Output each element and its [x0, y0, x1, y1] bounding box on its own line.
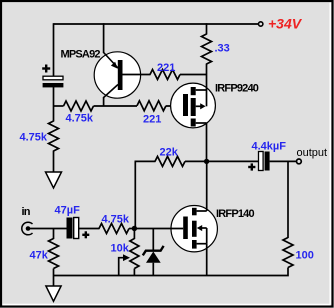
wire output row left: corner to 22k [135, 160, 156, 162]
svg-text:100: 100 [296, 249, 314, 261]
wire U2 drain up to output node [206, 161, 208, 211]
capacitor C3 plus sign [248, 163, 255, 170]
frame inner white right edge [329, 3, 331, 305]
svg-text:+34V: +34V [268, 16, 303, 32]
zener diode top lead [152, 229, 154, 251]
pot wiper arrowhead [123, 254, 130, 261]
U2 channel bottom segment [192, 240, 197, 249]
ground symbol left-mid [46, 172, 62, 188]
U2 channel mid segment [192, 221, 197, 237]
capacitor C1 top plate (hollow) [43, 76, 63, 80]
resistor 47k (vertical) [49, 239, 59, 269]
transistor Q1 base bar [118, 60, 123, 90]
wire y=106 row: 221 to IRFP9240 gate [166, 105, 184, 107]
capacitor C2 right plate (hollow) [74, 218, 79, 239]
wire .33 top lead [206, 23, 208, 34]
wire y=106 row: node to R 4.75k [54, 105, 64, 107]
U1 channel bottom segment [191, 119, 196, 127]
wire 47k hang from input wire [53, 229, 55, 240]
transistor Q1 emitter diagonal [104, 53, 118, 69]
zener anode triangle (points up) [146, 252, 161, 263]
transistor Q1 base lead [123, 74, 151, 76]
resistor 221 lower (horizontal) [137, 101, 166, 111]
U2 gate bar [183, 217, 188, 240]
svg-text:4.4kµF: 4.4kµF [252, 140, 287, 152]
wire 10k top from gate node [133, 229, 135, 240]
wire MPSA92 collector lead [103, 97, 105, 107]
transistor U1 IRFP9240 circle [171, 83, 216, 128]
svg-text:221: 221 [157, 62, 175, 74]
U2 body lead mid [202, 227, 207, 229]
wire 22k to output node dot [185, 160, 207, 162]
svg-text:in: in [22, 206, 31, 218]
pot wiper wire [119, 258, 124, 276]
capacitor C2 plus sign [82, 231, 89, 238]
terminal input center dot [26, 226, 31, 231]
wire y=106 row: R 4.75k to 221 [94, 105, 138, 107]
U2 drain lead top [197, 210, 207, 212]
transistor Q1 emitter arrowhead [111, 62, 118, 69]
wire 221 upper to source node [180, 74, 207, 76]
wire gate node to IRFP140 gate [134, 228, 183, 230]
wire MPSA92 emitter lead [103, 23, 105, 53]
U1 source lead top [196, 89, 207, 91]
wire 100 bottom to ground bus [54, 268, 289, 276]
U1 body arrowhead (points right) [200, 103, 205, 109]
U1 drain lead bottom [196, 122, 207, 124]
terminal input [22, 222, 33, 235]
wire top rail y=24 [54, 23, 259, 25]
resistor 22k (horizontal) [155, 156, 185, 166]
wire C1 bottom to node row y=106 [53, 87, 55, 122]
svg-text:4.75k: 4.75k [102, 213, 130, 225]
transistor U2 IRFP140 circle [171, 206, 217, 252]
wire R4.75k to gate node [129, 228, 134, 230]
U1 gate bar [183, 94, 188, 116]
svg-text:.33: .33 [215, 43, 230, 55]
transistor Q1 collector diagonal [104, 85, 118, 98]
resistor 4.75k left (vertical) [49, 121, 59, 151]
svg-text:4.75k: 4.75k [20, 131, 48, 143]
U2 body arrowhead (points left) [197, 225, 202, 231]
capacitor C3 left plate (hollow) [259, 152, 264, 171]
wire down to 100 [287, 161, 289, 238]
junction dot gate node [132, 226, 137, 231]
svg-text:IRFP140: IRFP140 [216, 208, 254, 220]
resistor 100 (vertical) [283, 238, 293, 268]
resistor 4.75k top-left (horizontal) [64, 101, 94, 111]
wire U2 source down to ground bus [206, 244, 208, 276]
capacitor C3 right plate (solid) [265, 152, 270, 171]
svg-text:output: output [297, 147, 328, 159]
wire left vertical R4.75k to ground [53, 151, 55, 173]
resistor 10k pot (vertical) [130, 239, 139, 269]
wire .33 bottom through circle to body lead [206, 64, 208, 107]
svg-text:22k: 22k [160, 146, 179, 158]
capacitor C2 left plate (solid) [67, 218, 73, 239]
wire left vertical from rail to C1 [53, 23, 55, 76]
resistor .33 (vertical) [202, 34, 212, 64]
capacitor C1 plus sign [42, 65, 50, 73]
wire C3 to output terminal [270, 160, 297, 162]
svg-text:47µF: 47µF [55, 205, 81, 217]
svg-text:47k: 47k [30, 249, 49, 261]
wire input to C2 [28, 228, 67, 230]
wire U1 drain down to output node [206, 123, 208, 162]
capacitor C1 bottom plate (solid) [43, 83, 64, 87]
svg-text:MPSA92: MPSA92 [61, 48, 101, 60]
wire C2 to R 4.75k [79, 228, 100, 230]
wire U2 body to source join [206, 228, 208, 244]
svg-text:IRFP9240: IRFP9240 [215, 82, 259, 94]
transistor Q1 MPSA92 circle [94, 52, 140, 98]
svg-text:221: 221 [143, 113, 161, 125]
junction dot output node [204, 159, 209, 164]
zener cathode bar with bends [143, 246, 164, 256]
ground symbol bottom-left [46, 286, 61, 301]
U1 channel mid segment [191, 98, 196, 116]
resistor 4.75k bottom (horizontal) [99, 224, 129, 234]
svg-text:4.75k: 4.75k [66, 112, 94, 124]
svg-text:10k: 10k [111, 243, 130, 255]
wire 47k bottom through bus to ground [53, 269, 55, 287]
wire 10k bottom to bus [133, 269, 135, 276]
U2 source lead bottom [197, 243, 207, 245]
frame inner white bottom edge [3, 304, 331, 306]
resistor 221 upper (horizontal) [150, 70, 180, 80]
U1 channel top segment [191, 87, 196, 95]
zener bottom lead [152, 263, 154, 276]
U1 body lead mid [196, 105, 201, 107]
terminal +34V circle [259, 22, 263, 26]
wire output node to C3 [207, 160, 259, 162]
wire 22k corner: down from output row to gate node [134, 161, 136, 228]
U2 channel top segment [192, 208, 197, 216]
terminal output circle [297, 159, 302, 164]
